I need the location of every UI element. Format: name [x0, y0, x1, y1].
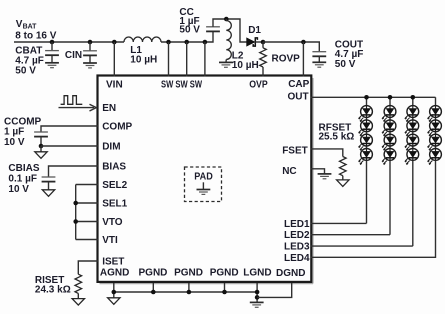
svg-text:DGND: DGND — [276, 268, 305, 279]
label RISET — [35, 275, 71, 295]
wire SEL2 pin — [76, 184, 98, 186]
capacitor CCOMP — [34, 132, 48, 137]
ground PAD — [197, 190, 211, 195]
LED D32 — [405, 120, 419, 136]
node LGND junction — [255, 290, 260, 295]
wire ground stub below DIM node — [40, 146, 42, 152]
svg-text:24.3 kΩ: 24.3 kΩ — [35, 284, 71, 295]
wire VTO pin — [76, 221, 98, 223]
ground NC — [318, 174, 332, 179]
ground RISET (triangle) — [72, 299, 84, 306]
svg-text:LGND: LGND — [243, 268, 271, 279]
svg-text:PAD: PAD — [194, 172, 213, 183]
wire LED string 3 vertical — [412, 97, 414, 246]
svg-text:LED3: LED3 — [284, 242, 310, 253]
node DIM junction — [39, 144, 44, 149]
svg-text:LED4: LED4 — [284, 253, 310, 264]
wire LED2 pin — [311, 234, 391, 236]
wire DIM pin — [41, 145, 98, 147]
node LED string 1 junction — [364, 95, 369, 100]
svg-text:PGND: PGND — [174, 268, 203, 279]
wire FSET pin — [311, 149, 343, 157]
EN pulse symbol — [61, 96, 83, 105]
wire LED string 1 vertical — [366, 97, 368, 223]
ground CIN — [83, 63, 97, 68]
label CBAT — [15, 45, 44, 76]
LED D22 — [382, 120, 396, 136]
wire PGND3 pin — [224, 283, 226, 292]
svg-text:OVP: OVP — [249, 80, 268, 91]
node SW1 junction — [166, 40, 171, 45]
capacitor COUT — [312, 52, 326, 57]
wire VIN pin — [113, 42, 115, 77]
wire CCOMP bottom to DIM node — [40, 137, 42, 146]
svg-text:CIN: CIN — [65, 50, 82, 61]
inductor L1 — [124, 37, 161, 42]
capacitor CIN — [83, 51, 97, 56]
node SW3 junction — [203, 40, 208, 45]
node PGND2 junction — [187, 290, 192, 295]
svg-text:0.1 µF: 0.1 µF — [8, 174, 37, 185]
svg-text:10 V: 10 V — [4, 137, 25, 148]
svg-text:NC: NC — [282, 166, 296, 177]
node LED string 3 junction — [411, 95, 416, 100]
ground COUT — [312, 62, 326, 67]
ground RFSET (triangle) — [337, 180, 349, 187]
wire L2 bottom stub — [225, 59, 227, 62]
svg-text:BIAS: BIAS — [102, 161, 126, 172]
label L1 value — [130, 45, 157, 65]
resistor ROVP — [260, 42, 267, 77]
node D1 output junction — [261, 40, 266, 45]
svg-text:SEL1: SEL1 — [102, 199, 127, 210]
wire NC pin — [311, 169, 325, 174]
LED D13 — [359, 134, 373, 150]
wire VBAT rail — [14, 31, 213, 42]
diode D1 (schottky) — [247, 38, 258, 46]
wire D1 cathode to output node — [255, 41, 263, 43]
svg-text:10 µH: 10 µH — [232, 60, 259, 71]
label CC — [179, 7, 200, 36]
svg-text:FSET: FSET — [282, 145, 308, 156]
LED D43 — [428, 134, 442, 150]
svg-text:50 V: 50 V — [179, 25, 200, 36]
node VTO junction — [73, 219, 78, 224]
svg-text:25.5 kΩ: 25.5 kΩ — [319, 131, 355, 142]
wire CC to L2 node — [213, 19, 247, 42]
svg-text:10 µH: 10 µH — [130, 54, 157, 65]
LED D41 — [428, 106, 442, 122]
capacitor CBIAS — [42, 177, 56, 182]
ground L2 — [219, 62, 233, 67]
LED D33 — [405, 134, 419, 150]
svg-text:D1: D1 — [248, 25, 261, 36]
wire LED string 4 vertical — [311, 97, 436, 257]
LED D31 — [405, 106, 419, 122]
LED D24 — [382, 149, 396, 165]
svg-text:8 to 16 V: 8 to 16 V — [15, 31, 56, 42]
wire PGND1 pin — [152, 283, 154, 292]
svg-text:VTI: VTI — [102, 235, 118, 246]
svg-text:AGND: AGND — [100, 268, 129, 279]
wire LED3 pin — [311, 245, 413, 247]
svg-text:VTO: VTO — [102, 217, 123, 228]
node LED string 2 junction — [388, 95, 393, 100]
svg-text:PGND: PGND — [210, 268, 239, 279]
label CCOMP — [4, 116, 42, 148]
wire PAD ground stub — [202, 182, 204, 189]
svg-text:SEL2: SEL2 — [102, 180, 127, 191]
node SEL1 junction — [73, 201, 78, 206]
wire SW2 pin — [186, 42, 188, 77]
IC U1 body — [98, 76, 312, 282]
svg-text:OUT: OUT — [288, 92, 309, 103]
wire ground bus — [114, 291, 257, 293]
svg-text:10 V: 10 V — [8, 184, 29, 195]
node L2 top junction — [224, 17, 229, 22]
wire SEL bus vertical — [75, 185, 77, 240]
wire ISET pin — [78, 261, 98, 274]
wire SW3 pin — [204, 42, 206, 77]
node CAP junction — [301, 40, 306, 45]
svg-text:BAT: BAT — [23, 23, 38, 30]
svg-text:ISET: ISET — [102, 257, 124, 268]
wire LED string 2 vertical — [389, 97, 391, 234]
wire SEL1 pin — [76, 202, 98, 204]
wire EN input arrow — [59, 104, 97, 111]
svg-text:COMP: COMP — [102, 122, 132, 133]
svg-text:50 V: 50 V — [335, 59, 356, 70]
ground CCOMP (triangle) — [35, 152, 47, 159]
svg-text:SW SW SW: SW SW SW — [161, 80, 202, 91]
wire output rail — [263, 42, 319, 52]
IC U1 body shadow — [100, 78, 314, 284]
LED D21 — [382, 106, 396, 122]
ground CBAT — [45, 63, 59, 68]
node LGND lower junction — [255, 295, 260, 300]
ground CBIAS (triangle) — [42, 190, 54, 197]
LED D14 — [359, 149, 373, 165]
node PGND3 junction — [222, 290, 227, 295]
svg-text:DIM: DIM — [102, 142, 120, 153]
svg-text:CAP: CAP — [288, 79, 309, 90]
resistor RISET — [75, 274, 82, 293]
wire LED1 pin — [311, 222, 367, 224]
capacitor CBAT — [45, 51, 59, 56]
wire OUT rail — [311, 96, 436, 98]
svg-text:ROVP: ROVP — [272, 54, 301, 65]
wire RISET bottom stub — [77, 293, 79, 298]
svg-text:VIN: VIN — [106, 80, 123, 91]
wire L2 top stub — [225, 19, 227, 21]
wire PGND2 pin — [188, 283, 190, 292]
svg-text:50 V: 50 V — [15, 66, 36, 77]
svg-text:CBIAS: CBIAS — [8, 163, 39, 174]
label L2 value — [232, 51, 259, 72]
wire AGND pin — [113, 283, 115, 298]
label COUT — [335, 39, 364, 70]
LED D11 — [359, 106, 373, 122]
node PGND1 junction — [151, 290, 156, 295]
node AGND junction — [112, 290, 117, 295]
svg-text:EN: EN — [102, 103, 116, 114]
wire RFSET bottom stub — [342, 176, 344, 180]
node VIN junction — [112, 40, 117, 45]
wire LGND pin — [256, 283, 258, 302]
wire DGND pin — [257, 283, 292, 297]
wire VTI pin — [76, 239, 98, 241]
capacitor CC — [206, 27, 220, 32]
wire SW1 pin — [168, 42, 170, 77]
wire CBAT stub — [51, 42, 53, 63]
ground LGND — [250, 302, 264, 307]
LED D42 — [428, 120, 442, 136]
svg-text:LED1: LED1 — [284, 219, 310, 230]
PAD dashed box — [185, 167, 222, 202]
LED D34 — [405, 149, 419, 165]
node SW2 junction — [184, 40, 189, 45]
label RFSET — [319, 122, 355, 142]
wire CBIAS bottom stub — [48, 182, 50, 190]
wire COUT stub — [318, 56, 320, 62]
resistor RFSET — [340, 157, 347, 176]
node CBAT junction — [50, 40, 55, 45]
wire CAP pin — [302, 42, 304, 77]
LED D23 — [382, 134, 396, 150]
svg-text:LED2: LED2 — [284, 230, 310, 241]
svg-text:PGND: PGND — [139, 268, 168, 279]
wire BIAS pin — [49, 166, 99, 177]
label VBAT — [15, 19, 56, 42]
wire COMP pin — [41, 126, 98, 132]
ground AGND (triangle) — [108, 298, 120, 305]
inductor L2 — [226, 21, 231, 60]
LED D12 — [359, 120, 373, 136]
node CIN junction — [88, 40, 93, 45]
wire CIN stub — [89, 42, 91, 63]
LED D44 — [428, 149, 442, 165]
label CBIAS — [8, 163, 39, 195]
